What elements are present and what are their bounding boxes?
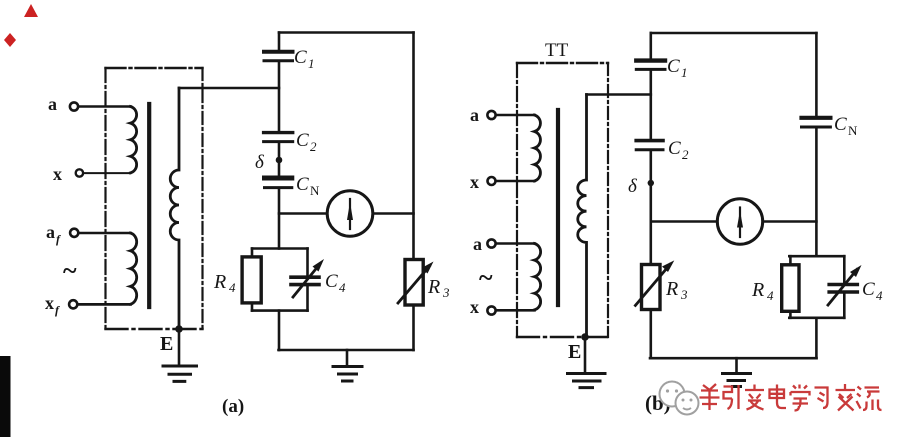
svg-text:a: a [48,94,57,114]
svg-text:1: 1 [308,56,315,71]
C branch C2 to CN (a) [278,144,281,176]
capacitor C2 (b) [636,139,663,143]
black bar bottom left [0,356,11,437]
svg-text:R: R [751,279,764,301]
primary winding P2 (b) [535,244,541,310]
primary winding P2 (a) [131,233,137,304]
svg-text:E: E [160,333,173,355]
terminal a2 (b) [487,239,495,247]
C branch above C1 (a) [278,33,281,50]
node delta (b) [648,180,654,186]
capacitor C1 (a) [264,50,293,54]
R4C4 loop top edge (a) [252,247,308,250]
svg-text:4: 4 [876,288,883,303]
node delta (a) [276,157,283,164]
R4C4 loop top edge (b) [789,255,844,258]
terminal af (a) [70,229,78,237]
right rail upper (a) [412,33,415,260]
top rail (a) [279,31,414,34]
wire terminal x to winding (a) [83,172,130,174]
svg-text:4: 4 [229,280,236,295]
svg-text:R: R [213,271,226,293]
resistor R4 (a) [242,257,261,303]
wire terminal xf to winding (a) [78,303,131,306]
shield box (b) top edge [517,62,608,64]
svg-text:3: 3 [680,287,688,302]
C branch CN to loop (a) [278,190,281,249]
right rail CN to loop (b) [815,129,818,256]
svg-text:x: x [470,297,479,317]
svg-text:4: 4 [339,280,346,295]
loop left edge upper (b) [789,256,792,265]
svg-text:x: x [470,172,479,192]
variable capacitor C4 (a) [291,275,319,279]
capacitor CN (a) [265,176,292,181]
right rail upper (b) [815,33,818,115]
galvanometer G (b) [717,199,762,244]
loop left edge upper (a) [251,249,254,257]
svg-text:(a): (a) [222,396,244,417]
terminal x (b) [488,177,496,185]
primary winding P1 (a) [131,107,137,173]
loop left edge lower (b) [789,311,792,318]
node E (b) [581,333,589,341]
primary winding P1 (b) [535,115,541,181]
bottom wire (a) [279,349,414,352]
C branch R3 to bottom (b) [649,310,652,359]
svg-text:a: a [470,105,479,125]
red mark triangle top left [24,4,38,17]
wire E to ground (b) [584,337,587,374]
svg-text:δ: δ [628,176,638,197]
node E (a) [175,325,183,333]
watermark logo circle 2 [676,392,699,415]
loop right edge upper (b) [843,256,846,282]
svg-text:C: C [667,56,680,77]
svg-text:C: C [862,279,875,300]
resistor R4 (b) [782,265,799,312]
terminal a (a) [70,102,78,110]
loop left edge lower (a) [251,303,254,311]
svg-text:N: N [848,123,858,138]
loop bottom edge (a) [252,309,308,312]
svg-text:TT: TT [545,40,569,61]
galvanometer wire left (b) [651,220,718,223]
char dian [770,385,787,409]
terminal x (a) [76,169,83,176]
svg-text:x: x [53,164,62,184]
galvanometer wire left (a) [279,212,327,215]
svg-text:C: C [294,47,307,68]
secondary winding (b) [578,95,587,338]
wire terminal a to winding (a) [78,105,130,108]
variable resistor R3 (b) [642,265,661,310]
wire terminal af to winding (a) [79,232,131,235]
svg-text:C: C [296,174,309,195]
transformer core bar (b) [556,110,560,305]
wire terminal a to winding (b) [496,114,535,117]
shield box (b) left edge [516,63,518,337]
right rail lower (a) [412,305,415,350]
char jiao [836,384,856,411]
char liu [857,387,882,411]
shield box (a) bottom edge [106,328,203,330]
char qian [700,384,720,410]
svg-text:x: x [45,293,54,313]
svg-text:2: 2 [310,139,317,154]
terminal x2 (b) [487,306,495,314]
svg-text:~: ~ [479,263,493,292]
svg-text:a: a [46,222,55,242]
wire secondary to C branch (a) [179,87,279,90]
ground at E (b) [568,374,606,388]
svg-text:C: C [668,138,681,159]
watermark logo circle 1 [660,382,685,407]
watermark text (red hanzi strokes) [700,384,882,411]
capacitor C1 (b) [636,58,665,62]
svg-text:R: R [427,276,440,298]
char xue [791,385,810,411]
char yin [724,385,739,409]
secondary winding (a) [170,88,179,329]
shield box (a) left edge [104,68,106,329]
galvanometer wire right (b) [763,220,817,223]
svg-text:E: E [568,341,581,363]
loop bottom edge (b) [789,316,844,319]
shield box (b) right edge [607,63,609,337]
ground at E (a) [163,366,197,381]
loop to bottom wire (a) [278,311,281,350]
wire terminal x to winding (b) [496,180,535,183]
svg-text:N: N [310,183,320,198]
variable resistor R3 (a) [405,260,423,306]
svg-text:a: a [473,234,482,254]
svg-text:R: R [665,278,678,300]
bottom wire (b) [650,357,817,360]
C branch above C1 (b) [649,33,652,58]
shield box (a) top edge [106,67,203,69]
svg-text:3: 3 [442,285,450,300]
C branch C2 down to R3 (b) [649,152,652,265]
svg-text:δ: δ [255,152,265,173]
svg-text:C: C [296,130,309,151]
svg-text:C: C [834,114,847,135]
svg-text:~: ~ [63,256,77,285]
wire secondary to C branch (b) [587,93,651,96]
wire terminal a2 to winding (b) [496,242,535,245]
transformer core bar (a) [147,104,151,307]
capacitor CN (b) [802,116,831,120]
loop right edge lower (b) [843,294,846,318]
wire E to ground (a) [178,329,181,366]
capacitor C2 (a) [264,131,293,134]
char bian [745,385,764,410]
loop right edge lower (a) [306,287,309,311]
ground on bottom wire (a) [346,350,349,367]
ground on bottom wire (b) [735,358,738,373]
top rail (b) [651,32,817,35]
shield box (b) bottom edge [517,336,608,338]
red mark diamond top left [4,33,16,47]
variable capacitor C4 (b) [829,283,857,287]
terminal a (b) [487,111,495,119]
svg-text:4: 4 [767,288,774,303]
loop right edge upper (a) [306,249,309,275]
loop to bottom wire (b) [815,318,818,358]
svg-text:1: 1 [681,65,688,80]
wire terminal x2 to winding (b) [496,309,535,312]
terminal xf (a) [69,300,77,308]
char xi [815,388,828,409]
C branch C1 to C2 (b) [649,72,652,139]
shield box (a) right edge [201,68,203,329]
galvanometer G (a) [327,191,373,237]
svg-text:C: C [325,271,338,292]
galvanometer wire right (a) [373,212,414,215]
svg-text:2: 2 [682,147,689,162]
C branch C1 to C2 (a) [278,63,281,131]
